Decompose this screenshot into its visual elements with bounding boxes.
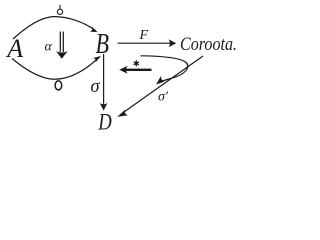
2-cell double arrow shaft (56, 32, 68, 59)
svg-text:B: B (96, 29, 110, 60)
arrow sigma from B down to D (103, 54, 105, 108)
2-cell arrowhead (56, 51, 68, 59)
arrowhead F (169, 39, 177, 47)
arrowhead loop (156, 75, 164, 84)
svg-text:σ: σ (91, 76, 101, 97)
small left arrow (119, 66, 151, 74)
wire top curve A to B (13, 17, 96, 39)
arrowhead bottom curve at B (93, 56, 101, 63)
arrowhead top curve at B (90, 26, 98, 32)
svg-text:F: F (139, 28, 149, 43)
arrow F from B to Coroota (118, 42, 174, 44)
svg-text:D: D (97, 109, 111, 134)
arrow sigma-prime from Coroota down to D (121, 56, 204, 115)
svg-text:α: α (45, 40, 53, 55)
ring-with-stem label on top curve (57, 5, 62, 15)
label asterisk above left arrow (134, 60, 139, 66)
arrowhead sigma-prime (117, 109, 128, 117)
arrowhead sigma (100, 103, 108, 111)
loop arrow from Coroota hooking down-left (141, 56, 188, 82)
svg-text:σ′: σ′ (158, 90, 169, 105)
label 0 on bottom curve (55, 81, 62, 90)
svg-text:Coroota.: Coroota. (180, 34, 237, 55)
wire bottom curve A to B (12, 57, 100, 80)
